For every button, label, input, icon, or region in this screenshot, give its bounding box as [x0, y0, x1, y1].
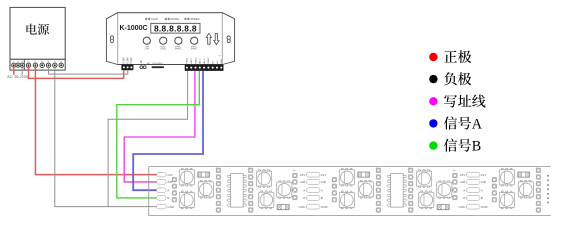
svg-text:SPEED-: SPEED-: [191, 49, 198, 51]
svg-text:A: A: [481, 188, 484, 192]
PSU DC terminal V+3: [40, 63, 44, 67]
svg-text:R6: R6: [453, 170, 457, 172]
svg-text:CHIP: CHIP: [151, 17, 158, 21]
strip continuation dots: [547, 175, 549, 177]
svg-text:SPEED+: SPEED+: [175, 49, 182, 51]
svg-text:AB-2: AB-2: [203, 58, 206, 64]
svg-text:B: B: [472, 139, 481, 155]
legend label 写址线: [444, 95, 457, 108]
svg-text:B: B: [167, 196, 169, 200]
legend dot 信号B: [429, 141, 437, 149]
svg-text:24V: 24V: [321, 173, 327, 177]
PSU AC terminal N: [16, 63, 20, 67]
LED D24: [417, 170, 432, 188]
resistor R11: [197, 172, 209, 177]
svg-text:GND3: GND3: [208, 57, 210, 64]
svg-text:A: A: [321, 188, 324, 192]
LED D21: [339, 168, 354, 186]
svg-text:AB: AB: [140, 60, 143, 64]
legend dot 写址线: [429, 97, 437, 105]
aux jack holes: [140, 66, 143, 69]
svg-text:AB-1: AB-1: [199, 58, 202, 64]
power supply PSU body: [10, 7, 65, 59]
controller header text CHIP MODE SPEED: [145, 18, 147, 20]
svg-text:SPEED: SPEED: [190, 17, 199, 21]
down arrow icon: [214, 34, 219, 45]
LED D12: [179, 191, 194, 209]
svg-text:GND: GND: [481, 205, 489, 209]
svg-text:A/B: A/B: [481, 180, 486, 184]
LED D13: [198, 181, 213, 199]
LED D31: [499, 168, 514, 186]
svg-text:GND: GND: [221, 59, 223, 64]
svg-text:GND: GND: [459, 205, 467, 209]
svg-text:GND: GND: [321, 205, 329, 209]
input pad GND: [157, 204, 167, 209]
legend label 正极: [444, 51, 457, 63]
svg-text:A: A: [167, 188, 170, 192]
svg-text:B: B: [463, 196, 465, 200]
PSU DC terminal V-1: [46, 63, 50, 67]
svg-text:MIC IN-5V(MIC): MIC IN-5V(MIC): [147, 63, 163, 65]
PSU DC terminal V-2: [53, 63, 57, 67]
svg-text:GND: GND: [167, 205, 175, 209]
wire signal A to strip (blue): [133, 71, 203, 190]
svg-text:K-1000C: K-1000C: [120, 24, 148, 32]
right flange keyhole: [227, 36, 230, 43]
wire controller GND to strip (gray): [108, 71, 188, 207]
legend label 信号B: [444, 139, 457, 152]
junction via column: [293, 173, 297, 177]
svg-text:R6: R6: [293, 170, 297, 172]
svg-text:B: B: [321, 196, 323, 200]
legend label 负极: [444, 72, 457, 85]
svg-text:-: -: [222, 55, 223, 58]
legend dot 正极: [429, 53, 437, 61]
svg-text:5-24V: 5-24V: [127, 57, 129, 64]
junction via column: [453, 173, 457, 177]
svg-text:24V: 24V: [167, 173, 173, 177]
svg-text:MODE: MODE: [171, 17, 180, 21]
via column: [332, 177, 336, 181]
controller left mounting flange: [106, 13, 117, 65]
button SPEED-: [191, 37, 198, 44]
input pad 24V: [157, 172, 167, 177]
wire AC live stub: [13, 66, 15, 75]
wire GND power to strip GND (gray): [55, 66, 158, 207]
left flange keyhole: [110, 36, 113, 43]
input pad A/B: [157, 180, 167, 185]
digital display: [151, 23, 200, 33]
button CHIP: [143, 37, 150, 44]
wire V+ power to controller (red): [29, 66, 124, 78]
via column: [492, 177, 496, 181]
resistor R31: [517, 172, 529, 177]
wire V+ power to strip 24V (red): [35, 66, 157, 175]
LED D33: [518, 181, 533, 199]
svg-text:A: A: [303, 188, 306, 192]
PSU DC terminal V-3: [59, 63, 63, 67]
LED D22: [339, 191, 354, 209]
IC U2: [388, 174, 407, 207]
button MODE: [160, 37, 167, 44]
legend dot 信号A: [429, 119, 437, 127]
resistor R22: [437, 204, 449, 209]
LED D15: [259, 191, 274, 209]
svg-text:MODE: MODE: [160, 49, 166, 51]
svg-text:8.8.8.8.8.8: 8.8.8.8.8.8: [154, 23, 197, 33]
up arrow icon: [206, 33, 211, 44]
controller power terminal block: [121, 65, 133, 71]
svg-text:A: A: [463, 188, 466, 192]
legend dot 负极: [429, 75, 437, 83]
svg-text:AC: 95-220V: AC: 95-220V: [7, 75, 29, 79]
button SPEED+: [175, 37, 182, 44]
PSU AC terminal G: [20, 63, 24, 67]
LED D16: [277, 181, 292, 199]
svg-text:A/B: A/B: [460, 180, 465, 184]
svg-text:24V: 24V: [300, 173, 306, 177]
wire address line to strip A/B (magenta): [124, 71, 195, 182]
PSU DC terminal V+1: [26, 63, 30, 67]
LED strip outline: [149, 167, 551, 216]
svg-text:GND2: GND2: [195, 57, 197, 64]
IC U1: [228, 174, 247, 207]
svg-text:B: B: [481, 196, 483, 200]
svg-text:GND: GND: [299, 205, 307, 209]
svg-text:24V: 24V: [460, 173, 466, 177]
svg-text:24V: 24V: [481, 173, 487, 177]
svg-text:GND1: GND1: [187, 57, 189, 64]
LED D25: [419, 191, 434, 209]
svg-text:A/B: A/B: [321, 180, 326, 184]
PSU terminal strip: [10, 59, 65, 70]
LED D23: [358, 181, 373, 199]
LED D11: [179, 168, 194, 186]
svg-text:A/B: A/B: [300, 180, 305, 184]
svg-text:5-24V: 5-24V: [124, 57, 126, 64]
svg-text:B: B: [303, 196, 305, 200]
svg-text:DAT1: DAT1: [190, 58, 193, 64]
LED D26: [437, 181, 452, 199]
svg-text:L: L: [13, 61, 14, 63]
svg-text:A: A: [472, 116, 483, 132]
controller right mounting flange: [222, 13, 234, 65]
LED D32: [499, 191, 514, 209]
legend label 信号A: [444, 116, 457, 129]
SD card slot: [152, 66, 165, 68]
svg-text:5-24V: 5-24V: [131, 57, 133, 64]
input pad A: [157, 188, 167, 193]
wire AC neutral stub: [21, 66, 23, 75]
LED D14: [257, 170, 272, 188]
controller output terminal block: [185, 65, 224, 71]
resistor R12: [277, 204, 289, 209]
via column: [172, 177, 176, 181]
PSU DC terminal V+2: [33, 63, 37, 67]
resistor R21: [357, 172, 369, 177]
svg-text:A/B: A/B: [167, 180, 172, 184]
controller K-1000C body: [118, 13, 223, 65]
wire GND power to controller (gray): [49, 66, 128, 74]
wire signal B to strip (green): [117, 71, 200, 198]
input pad B: [157, 196, 167, 201]
power supply label 电源: [26, 24, 36, 35]
PSU AC terminal L: [12, 63, 16, 67]
